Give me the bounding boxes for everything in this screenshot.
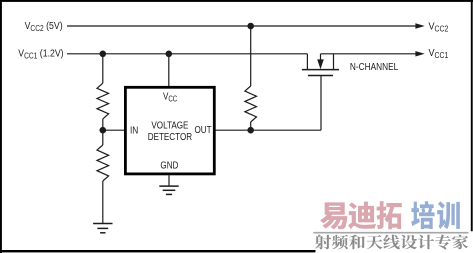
- wire divider top (VCC1 rail to R1): [102, 54, 104, 83]
- wire detector VCC pin: [168, 54, 170, 87]
- watermark title: [320, 201, 460, 229]
- resistor R1 upper divider: [97, 83, 109, 119]
- node OUT junction: [247, 127, 254, 134]
- wire VCC2 top rail: [67, 23, 425, 28]
- wire detector GND pin: [168, 175, 170, 186]
- node IN junction: [100, 127, 107, 134]
- svg-text:GND: GND: [160, 160, 178, 171]
- svg-text:OUT: OUT: [195, 124, 212, 135]
- svg-text:VOLTAGE: VOLTAGE: [151, 119, 188, 130]
- watermark card: [316, 231, 473, 253]
- wire detector OUT to gate: [215, 129, 322, 131]
- ground symbol (divider): [93, 224, 112, 233]
- resistor R3 pull-up: [245, 86, 257, 122]
- wire IN node to detector IN pin: [103, 129, 125, 131]
- wire gate lead: [320, 76, 322, 131]
- svg-text:IN: IN: [130, 123, 138, 135]
- svg-text:VCC1: VCC1: [429, 48, 449, 61]
- node VCC2 rail / pull-up junction: [247, 23, 254, 30]
- wire R3 to OUT node: [250, 122, 252, 130]
- resistor R2 lower divider: [97, 145, 109, 181]
- watermark tagline 射频和天线设计专家: [315, 234, 468, 249]
- node VCC1 rail / divider junction: [100, 51, 107, 58]
- svg-text:VCC1 (1.2V): VCC1 (1.2V): [18, 48, 63, 61]
- svg-text:VCC: VCC: [163, 91, 177, 104]
- wire R2 to ground: [102, 181, 104, 224]
- op-amp-block U1 voltage detector box: [125, 87, 214, 174]
- transistor Q1 N-channel MOSFET: [302, 54, 339, 76]
- svg-text:VCC2: VCC2: [429, 21, 449, 34]
- svg-text:VCC2 (5V): VCC2 (5V): [25, 21, 63, 34]
- svg-text:DETECTOR: DETECTOR: [148, 131, 193, 142]
- wire VCC1 left rail: [67, 53, 307, 55]
- wire R1 to IN node: [102, 119, 104, 145]
- svg-text:N-CHANNEL: N-CHANNEL: [350, 61, 398, 72]
- wire VCC1 output rail with arrow: [321, 51, 425, 56]
- ground symbol (detector GND): [159, 186, 178, 194]
- node VCC1 rail / detector VCC junction: [166, 51, 173, 58]
- wire pull-up top (VCC2 rail to R3, crosses VCC1 rail): [250, 26, 252, 86]
